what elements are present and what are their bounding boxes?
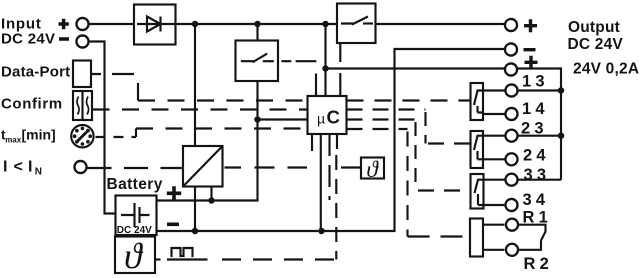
relay R coil box: [470, 219, 483, 257]
battery cell symbol: [121, 203, 150, 227]
wire battery node down to switch S2: [256, 24, 258, 41]
dashed row Confirm to uC: [93, 108, 308, 110]
svg-text:24: 24: [523, 147, 550, 165]
terminal circle 34: [505, 199, 517, 211]
plus sign 0.2A: [525, 56, 538, 69]
label Output DC 24V: [568, 19, 640, 78]
wire switch S2 control dashed to uC: [281, 60, 316, 62]
dashed row tmax to uC: [96, 136, 137, 138]
uC right pin row3 dashed to relay K3: [347, 118, 416, 120]
svg-text:max: max: [5, 136, 22, 145]
wire main bus diode to switch box S1: [176, 23, 338, 25]
svg-text:33: 33: [524, 166, 551, 184]
theta glyph: [366, 157, 379, 183]
plus sign input: [59, 19, 69, 29]
svg-text:DC 24V: DC 24V: [568, 36, 624, 53]
terminal circle out +: [505, 19, 517, 31]
switch S2 symbol: [241, 54, 267, 63]
wire diode node down to DC/DC converter: [194, 24, 196, 146]
terminal circle out 0.2A: [505, 63, 517, 75]
label I < IN: [3, 158, 42, 177]
svg-text:Battery: Battery: [107, 176, 163, 193]
terminal circle 33: [505, 174, 517, 186]
terminal circle 13: [505, 84, 517, 96]
dashed row Data-Port to uC: [91, 73, 135, 75]
svg-text:ϑ: ϑ: [124, 236, 144, 276]
wire output branch down: [324, 24, 326, 96]
wire 0.2A feed to terminal: [326, 67, 505, 69]
svg-text:Output: Output: [568, 19, 620, 36]
wire input- down to battery: [89, 42, 115, 214]
wire DC/DC pin2 to plus bus: [210, 187, 212, 201]
terminal circle input -: [76, 35, 88, 47]
svg-text:Data-Port: Data-Port: [1, 64, 70, 81]
svg-text:R1: R1: [523, 208, 553, 226]
minus sign output: [524, 48, 536, 51]
node junction 0.2A feed: [322, 65, 329, 72]
wire 13: [483, 89, 561, 91]
svg-text:DC 24V: DC 24V: [117, 225, 152, 236]
node junction DC/DC pin2: [208, 197, 215, 204]
switch S1 symbol: [341, 17, 368, 25]
node junction minus DC/DC: [192, 228, 199, 235]
wire S1 control dashed down to uC: [339, 43, 341, 96]
label Input DC 24V: [1, 15, 55, 47]
dashed row DC/DC to theta box: [225, 166, 362, 168]
svg-text:I: I: [28, 158, 32, 175]
label Confirm: [1, 95, 63, 112]
svg-text:DC 24V: DC 24V: [1, 30, 55, 47]
uC bottom pin3 dashed: [328, 134, 330, 200]
node junction 13: [558, 87, 565, 94]
dashed row I<IN to DC/DC: [88, 167, 184, 169]
battery temperature sensor box: [115, 237, 155, 274]
Data-Port box: [73, 61, 91, 88]
svg-text:µ: µ: [317, 110, 325, 126]
wire 14: [483, 113, 505, 115]
wire uC top pin1 dashed: [315, 74, 317, 97]
terminal labels 13 14 23 24 33 34 R1 R2: [521, 73, 553, 273]
relay contact K1 box: [471, 83, 484, 120]
svg-text:23: 23: [521, 120, 548, 138]
wire DC/DC pin1 to minus bus: [194, 187, 196, 232]
switch S1 box: [337, 4, 376, 44]
Battery label: [107, 176, 163, 193]
uC bottom pin2 to minus bus: [320, 134, 322, 231]
battery DC 24V label: [117, 225, 152, 236]
terminal circle 14: [505, 108, 517, 120]
node junction minus uC: [318, 228, 325, 235]
diode D1 symbol: [137, 17, 176, 32]
wire 23: [483, 135, 561, 137]
node junction diode out: [192, 21, 199, 28]
terminal circle 24: [505, 153, 517, 165]
Confirm key symbols: [77, 97, 79, 115]
svg-text:Confirm: Confirm: [1, 95, 63, 112]
svg-text:24V 0,2A: 24V 0,2A: [573, 60, 639, 77]
wire R1: [483, 224, 504, 226]
relay contact K3 box: [471, 174, 484, 209]
battery theta glyph: [124, 236, 144, 276]
node junction uC feed: [254, 116, 261, 123]
svg-text:34: 34: [523, 191, 550, 209]
wire 24: [483, 158, 505, 160]
square wave symbol: [171, 248, 194, 256]
terminal circle I<IN: [74, 161, 86, 173]
wire battery plus node to uC pin3: [258, 118, 308, 120]
terminal circle input +: [76, 18, 88, 30]
wire S1 out to output +: [376, 23, 505, 25]
battery minus bus wire: [157, 49, 504, 231]
relay contact K1 symbol: [474, 91, 483, 113]
svg-text:ϑ: ϑ: [366, 157, 379, 183]
rotary selector tmax: [71, 125, 93, 147]
battery box: [116, 196, 157, 236]
svg-text:I: I: [3, 158, 7, 175]
uC bottom pin4 to signal row: [336, 134, 338, 149]
node junction 23: [558, 132, 565, 139]
terminal circle out -: [505, 43, 517, 55]
wire 33: [484, 179, 562, 181]
uC box U1: [308, 96, 347, 134]
uC label: [317, 106, 340, 127]
diode D1 box: [134, 5, 176, 45]
node junction battery branch: [254, 21, 261, 28]
uC right pin row2 dashed to relay K2: [347, 108, 426, 110]
battery minus sign: [167, 223, 179, 227]
uC right pin row4 dashed to relay R: [347, 128, 408, 130]
relay contact K3 symbol: [475, 180, 484, 205]
theta box: [361, 158, 384, 179]
battery plus sign: [167, 186, 181, 200]
svg-text:[min]: [min]: [22, 126, 56, 142]
minus sign input: [59, 37, 69, 41]
wire input+ to diode box: [89, 23, 134, 25]
svg-text:N: N: [35, 167, 42, 178]
wire switch S2 bottom to battery plus: [157, 81, 258, 201]
wire R2: [483, 249, 504, 251]
wire 34: [484, 204, 505, 206]
terminal circle 23: [505, 130, 517, 142]
DC/DC converter diagonal: [183, 146, 223, 187]
node junction output branch: [322, 21, 329, 28]
svg-text:<: <: [14, 158, 23, 175]
relay contact K2 symbol: [474, 136, 483, 160]
svg-text:R2: R2: [524, 255, 554, 273]
signal dashed row battery theta to uC: [156, 258, 161, 260]
uC right pin row1 dashed to relay K1: [347, 99, 471, 101]
svg-text:C: C: [327, 106, 340, 127]
DC/DC converter box: [183, 146, 223, 187]
svg-text:14: 14: [522, 100, 549, 118]
label tmax[min]: [1, 126, 56, 144]
svg-text:13: 13: [522, 73, 549, 91]
terminal circle R1: [506, 219, 518, 231]
plus sign output: [524, 19, 537, 32]
label Data-Port: [1, 64, 70, 81]
uC bottom pin1 stub: [311, 134, 313, 151]
trunk wire +0.2A to contacts: [518, 69, 561, 180]
relay contact K2 box: [471, 131, 484, 168]
switch S2 box: [236, 41, 279, 82]
Confirm box: [73, 91, 92, 120]
terminal circle R2: [506, 244, 518, 256]
wire R1-R2 external loop with break: [519, 225, 546, 250]
